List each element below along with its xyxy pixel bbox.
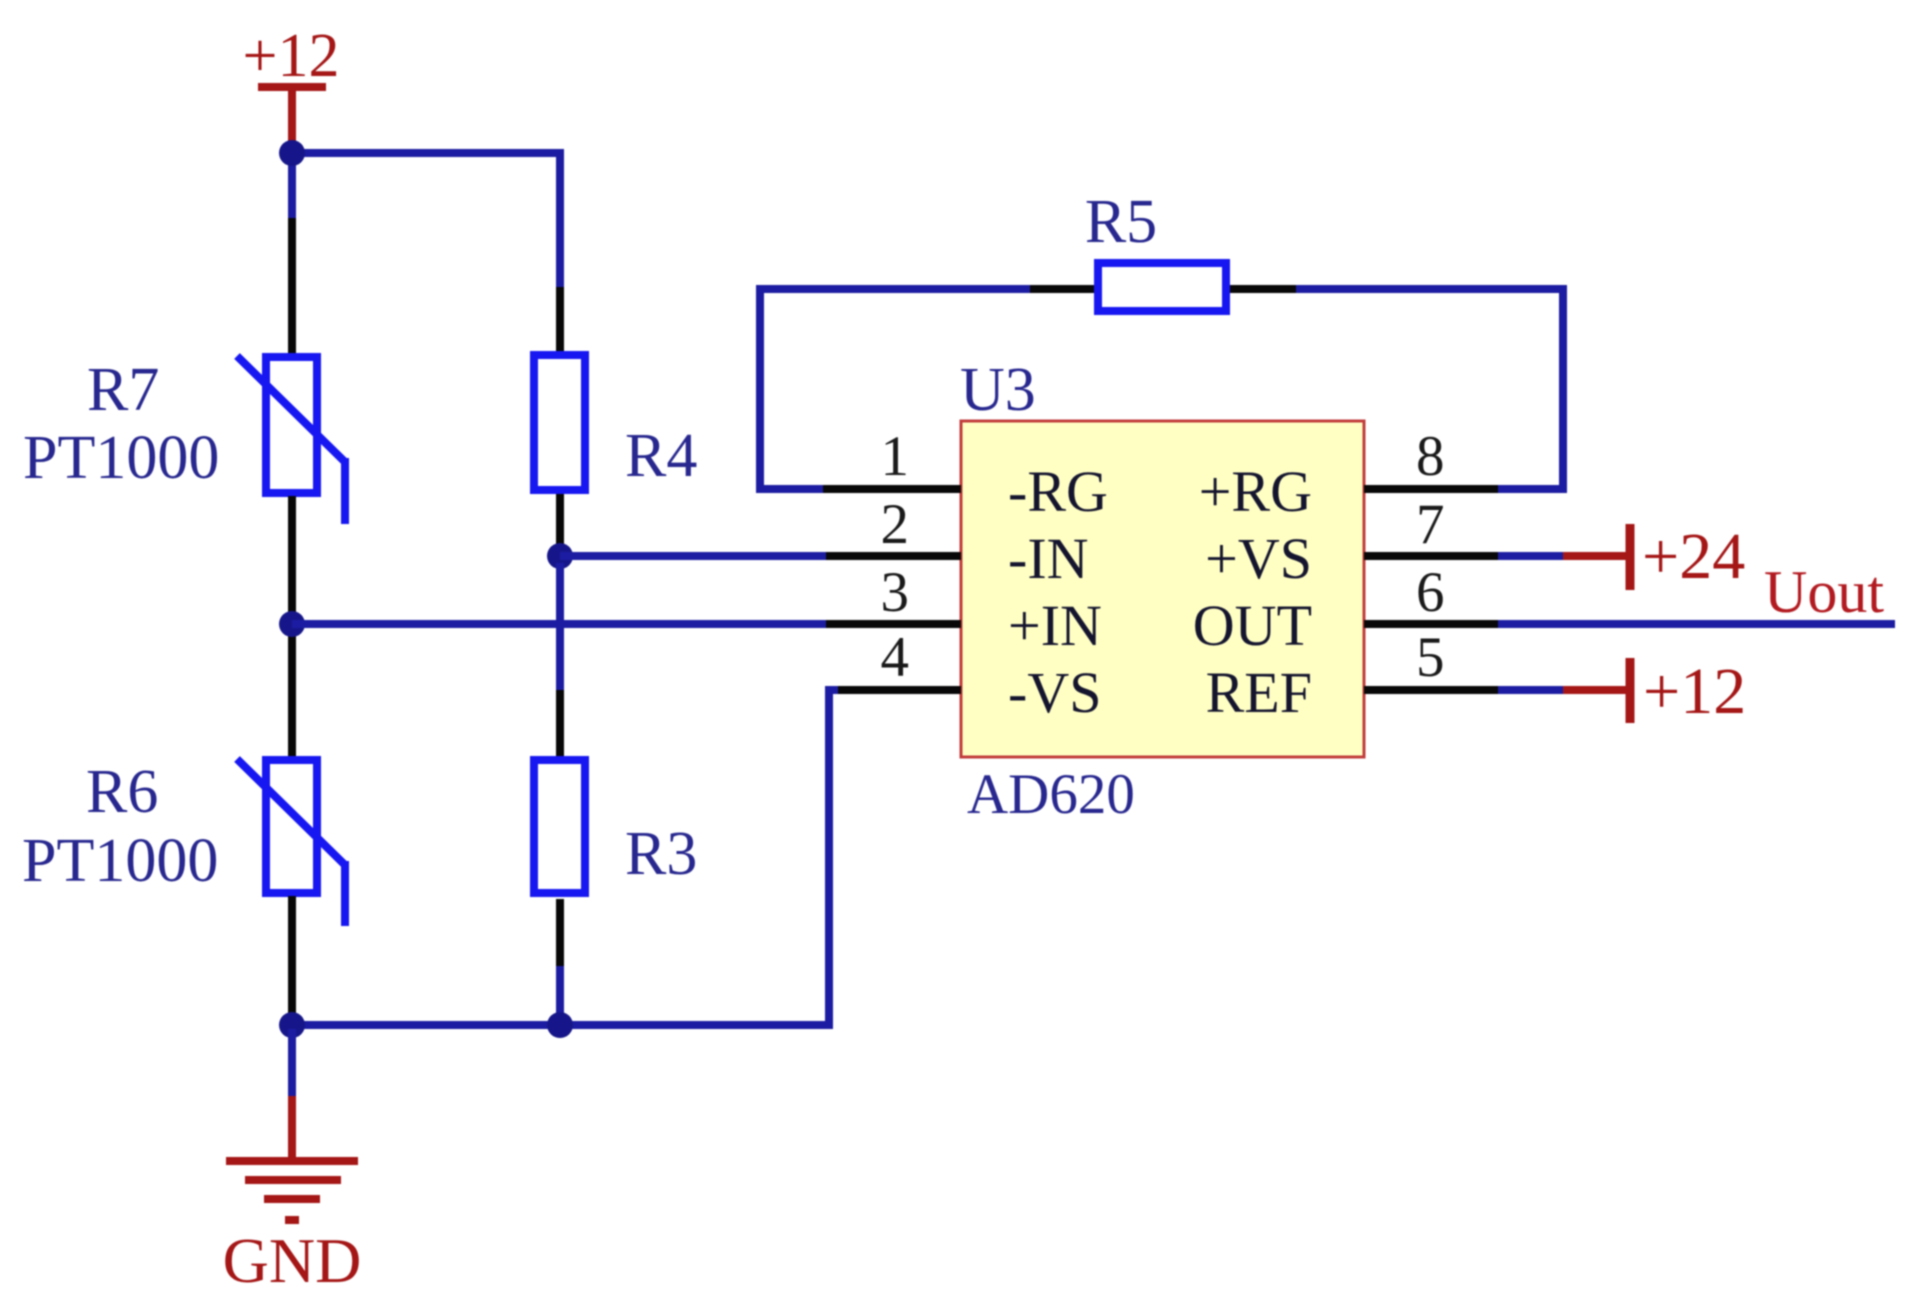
svg-text:+12: +12 xyxy=(243,22,340,90)
svg-text:-VS: -VS xyxy=(1008,660,1101,725)
svg-text:AD620: AD620 xyxy=(967,763,1135,826)
svg-text:OUT: OUT xyxy=(1193,593,1312,658)
svg-text:+12: +12 xyxy=(1643,655,1746,728)
svg-text:2: 2 xyxy=(881,493,910,556)
svg-text:PT1000: PT1000 xyxy=(23,424,219,492)
svg-text:7: 7 xyxy=(1416,493,1445,556)
svg-text:+IN: +IN xyxy=(1008,593,1102,658)
svg-text:4: 4 xyxy=(881,626,910,689)
svg-text:+VS: +VS xyxy=(1205,526,1312,591)
svg-text:R4: R4 xyxy=(625,422,697,490)
svg-text:+24: +24 xyxy=(1642,520,1745,593)
svg-text:3: 3 xyxy=(881,561,910,624)
svg-text:+RG: +RG xyxy=(1199,459,1312,524)
svg-text:1: 1 xyxy=(881,425,910,488)
svg-text:8: 8 xyxy=(1416,425,1445,488)
svg-text:R6: R6 xyxy=(86,758,158,826)
svg-text:-IN: -IN xyxy=(1008,526,1089,591)
svg-text:PT1000: PT1000 xyxy=(22,827,218,895)
svg-text:Uout: Uout xyxy=(1764,559,1884,625)
svg-text:GND: GND xyxy=(223,1225,362,1296)
svg-text:5: 5 xyxy=(1416,626,1445,689)
svg-text:R7: R7 xyxy=(87,356,159,424)
svg-text:U3: U3 xyxy=(960,356,1036,424)
svg-text:R3: R3 xyxy=(625,820,697,888)
svg-text:R5: R5 xyxy=(1085,188,1157,256)
svg-text:-RG: -RG xyxy=(1008,459,1108,524)
svg-text:6: 6 xyxy=(1416,561,1445,624)
svg-text:REF: REF xyxy=(1206,660,1312,725)
